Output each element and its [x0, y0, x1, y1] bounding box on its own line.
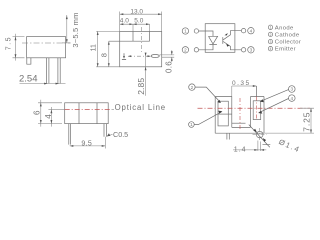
svg-text:C0.5: C0.5	[113, 130, 128, 139]
svg-text:11: 11	[90, 44, 97, 51]
svg-text:Collector: Collector	[275, 40, 301, 46]
svg-text:4: 4	[250, 28, 253, 33]
svg-text:3: 3	[270, 40, 272, 44]
svg-text:4: 4	[270, 47, 272, 51]
svg-text:Emitter: Emitter	[275, 47, 296, 53]
svg-text:2: 2	[184, 48, 187, 53]
svg-text:9.5: 9.5	[81, 140, 92, 147]
svg-text:2: 2	[191, 85, 194, 90]
svg-text:4: 4	[291, 96, 294, 101]
svg-text:13.0: 13.0	[130, 9, 143, 16]
svg-text:1: 1	[184, 29, 187, 34]
svg-text:Cathode: Cathode	[275, 32, 300, 38]
svg-text:7.5: 7.5	[6, 36, 13, 50]
svg-text:2: 2	[270, 33, 272, 37]
svg-text:3~5.5 mm: 3~5.5 mm	[71, 12, 80, 47]
svg-text:2.54: 2.54	[19, 74, 38, 85]
svg-text:0.6: 0.6	[165, 61, 174, 73]
svg-text:1.4: 1.4	[234, 146, 247, 153]
svg-text:5.0: 5.0	[134, 18, 143, 25]
svg-text:2.85: 2.85	[136, 78, 146, 95]
svg-text:7.25: 7.25	[302, 112, 312, 132]
svg-text:4: 4	[44, 114, 53, 119]
svg-text:Optical Line: Optical Line	[115, 103, 166, 112]
svg-text:1: 1	[190, 122, 193, 127]
svg-text:1: 1	[270, 26, 272, 30]
svg-text:0.35: 0.35	[232, 80, 251, 87]
svg-text:3: 3	[250, 48, 253, 53]
svg-text:6: 6	[33, 110, 42, 115]
svg-text:Ø1.4: Ø1.4	[277, 137, 301, 154]
svg-text:4.0: 4.0	[120, 18, 129, 25]
svg-text:3: 3	[291, 87, 294, 92]
svg-text:8: 8	[100, 53, 109, 57]
svg-text:Anode: Anode	[275, 25, 294, 31]
